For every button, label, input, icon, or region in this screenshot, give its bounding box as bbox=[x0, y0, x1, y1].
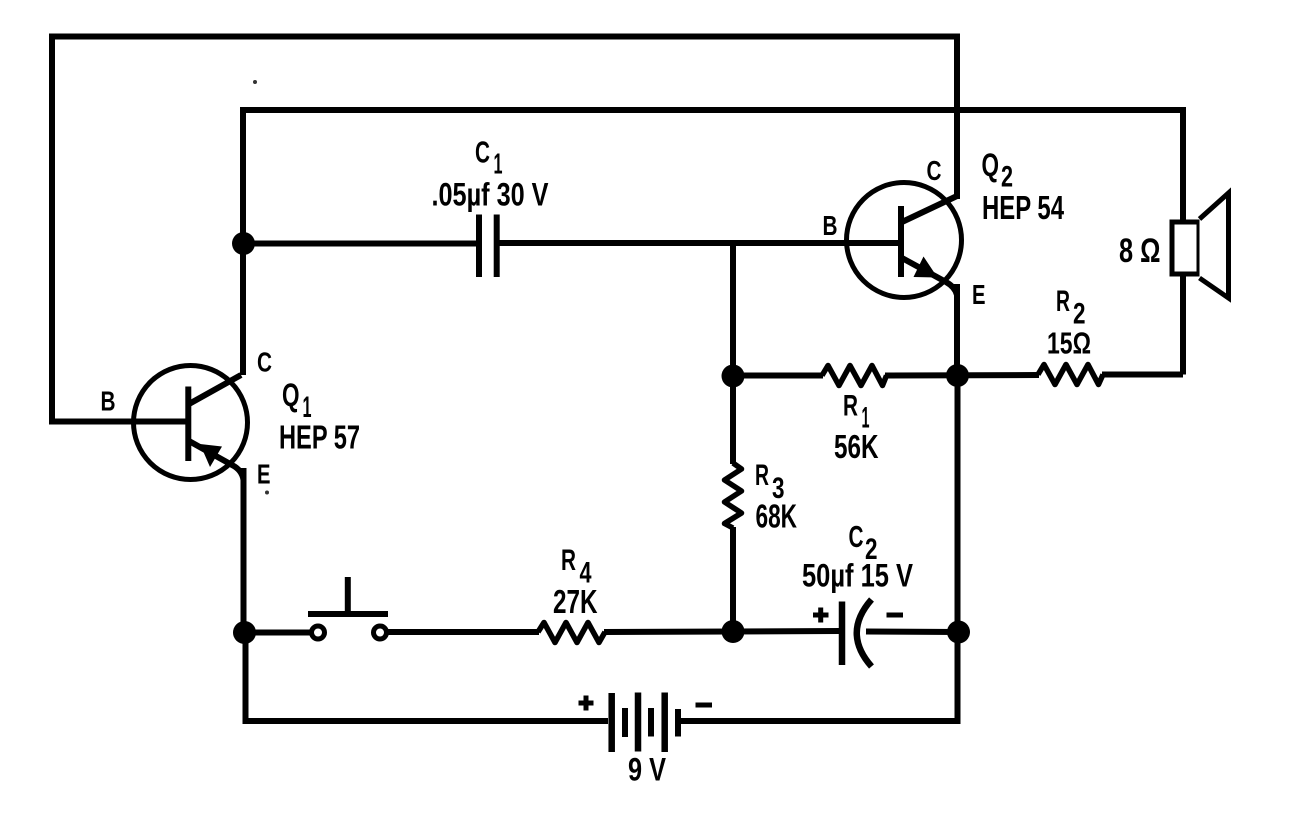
Q1 body circle bbox=[134, 366, 248, 480]
svg-text:E: E bbox=[257, 459, 271, 490]
wire: divider vertical (C1 node down to R1 rail) bbox=[730, 243, 736, 376]
wire: Q1 base lead horizontal bbox=[49, 419, 186, 425]
speaker driver rectangle bbox=[1172, 222, 1199, 274]
Q1 emitter arrow (points toward base: PNP) bbox=[200, 444, 222, 467]
C1 left plate bbox=[476, 215, 482, 278]
Q2 collector diagonal bbox=[902, 196, 957, 222]
svg-text:15Ω: 15Ω bbox=[1047, 326, 1091, 361]
battery long plate 2 bbox=[635, 693, 642, 752]
wire: R1 rail left segment bbox=[733, 373, 823, 379]
battery long plate 3 bbox=[661, 693, 668, 753]
wire: R1 to Q2 emitter node bbox=[885, 372, 1039, 379]
resistor R1 56K (horizontal zigzag) bbox=[822, 366, 887, 386]
transistor Q2 (NPN, HEP 54) bbox=[847, 183, 962, 298]
svg-text:C: C bbox=[475, 135, 490, 170]
svg-text:56K: 56K bbox=[834, 428, 879, 465]
svg-text:R: R bbox=[1056, 285, 1070, 318]
svg-text:B: B bbox=[823, 210, 838, 241]
battery minus sign bbox=[696, 703, 713, 708]
svg-text:HEP 54: HEP 54 bbox=[982, 189, 1064, 226]
junction dot: R4 / R3 / C2 node bbox=[722, 620, 745, 643]
wire: emitter node down right side and bottom rail to battery minus bbox=[681, 376, 958, 722]
Q1 emitter diagonal with jog bbox=[189, 441, 244, 480]
speaker 8 ohm bbox=[1172, 193, 1229, 298]
wire: C2 minus plate to right rail bbox=[866, 629, 958, 636]
C1 right plate bbox=[494, 215, 500, 278]
svg-text:C: C bbox=[849, 519, 864, 554]
Q2 base bar bbox=[898, 206, 904, 277]
wire: Q2 emitter drop to node bbox=[954, 284, 960, 376]
Q1 collector diagonal bbox=[189, 375, 241, 404]
Q1 base bar bbox=[185, 387, 191, 462]
scan speck near top bbox=[253, 80, 257, 84]
battery short plate 1 bbox=[622, 708, 628, 737]
scan speck below Q1 emitter label bbox=[265, 491, 269, 495]
resistor R2 15 ohm (horizontal zigzag) bbox=[1038, 365, 1103, 385]
wire: R4 to C2 node bbox=[604, 629, 733, 636]
speaker horn bbox=[1200, 193, 1229, 298]
svg-text:C: C bbox=[927, 155, 942, 186]
svg-text:9 V: 9 V bbox=[628, 752, 667, 788]
svg-text:HEP 57: HEP 57 bbox=[279, 419, 360, 456]
svg-text:B: B bbox=[101, 386, 116, 417]
Q2 emitter diagonal with jog bbox=[902, 258, 957, 295]
svg-text:8 Ω: 8 Ω bbox=[1119, 232, 1161, 270]
junction dot: Q1 collector / C1 node bbox=[232, 232, 255, 255]
battery plus sign bbox=[579, 696, 594, 711]
junction dot: Q2 emitter / R1 / R2 node bbox=[946, 364, 969, 387]
switch right contact bbox=[374, 626, 387, 639]
battery long plate 1 (+) bbox=[608, 693, 615, 752]
wire: C1 right plate to Q2 base bbox=[499, 240, 899, 246]
switch actuator stem bbox=[345, 577, 351, 614]
C2 polarity plus sign bbox=[813, 608, 829, 623]
Q2 emitter arrow (points outward: NPN) bbox=[914, 257, 938, 278]
svg-text:.05µf 30 V: .05µf 30 V bbox=[432, 177, 550, 213]
wire: bottom rail left from battery plus and riser to switch node bbox=[246, 632, 609, 721]
junction dot: R1/R3 divider node bbox=[722, 365, 745, 388]
svg-text:27K: 27K bbox=[553, 583, 598, 620]
battery B1 9V bbox=[579, 693, 713, 753]
transistor Q1 (PNP, HEP 57) bbox=[134, 366, 248, 481]
junction dot: Q1 emitter / switch node bbox=[233, 621, 256, 644]
wire: Q1 emitter drop bbox=[241, 468, 247, 633]
svg-text:C: C bbox=[257, 347, 272, 378]
C2 minus (curved) plate bbox=[857, 600, 872, 667]
C2 polarity minus sign bbox=[887, 613, 904, 618]
wire: R2 to speaker corner bbox=[1102, 372, 1183, 378]
resistor R3 68K (vertical zigzag) bbox=[725, 463, 742, 528]
wire: R3 top lead bbox=[730, 376, 736, 464]
capacitor C1 .05uf 30V bbox=[479, 215, 497, 278]
svg-text:50µf 15 V: 50µf 15 V bbox=[802, 558, 914, 594]
battery short plate 2 bbox=[648, 708, 654, 737]
wire: Q1 collector riser, second top rail, drop to speaker/R2 corner bbox=[243, 110, 1183, 375]
svg-text:E: E bbox=[972, 279, 986, 310]
svg-text:68K: 68K bbox=[756, 498, 798, 535]
wire: C2 node to plus plate bbox=[733, 628, 840, 635]
svg-text:R: R bbox=[843, 390, 858, 423]
junction dot: C2 / right rail node bbox=[947, 621, 970, 644]
wire: Q1 collector node to C1 left plate bbox=[243, 241, 477, 247]
wire: feedback loop (Q1 base up, top rail, down to Q2 collector) bbox=[52, 37, 957, 422]
switch left contact bbox=[312, 626, 325, 639]
C2 plus (straight) plate bbox=[839, 602, 846, 666]
svg-text:Q: Q bbox=[982, 147, 1000, 183]
svg-text:R: R bbox=[755, 459, 769, 492]
svg-text:R: R bbox=[561, 544, 576, 577]
svg-text:Q: Q bbox=[282, 377, 300, 413]
resistor R4 27K (horizontal zigzag) bbox=[538, 623, 605, 643]
capacitor C2 50uf 15V (polarized) bbox=[813, 600, 903, 667]
battery short plate 3 (-) bbox=[675, 709, 681, 737]
wire: right contact to R4 bbox=[388, 629, 539, 635]
wire: switch node to left contact bbox=[244, 630, 310, 636]
Q2 body circle bbox=[847, 183, 962, 298]
wire: R3 bottom lead bbox=[730, 527, 736, 632]
switch S1 (normally-open push button) bbox=[308, 577, 388, 639]
switch actuator bar bbox=[308, 611, 388, 617]
